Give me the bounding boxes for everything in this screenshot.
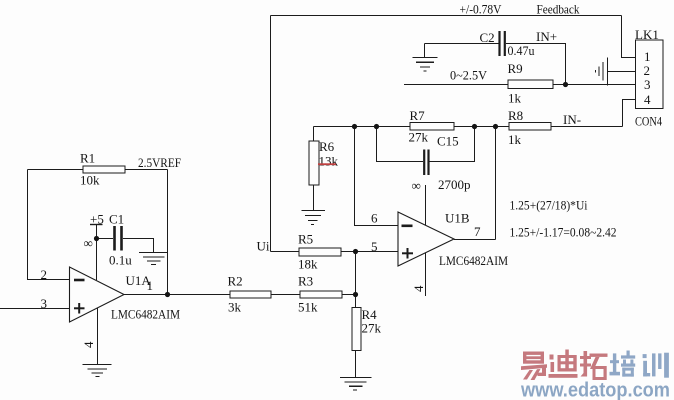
junction dot C15 left (374, 124, 379, 129)
wire feedback to LK1 pin1 (622, 16, 636, 58)
wire C1 row (97, 238, 114, 240)
junction dot output feedback (493, 124, 498, 129)
resistor R6 13k vertical (309, 141, 319, 185)
wire R4 bottom (355, 351, 357, 378)
connector LK1 CON4 body (636, 40, 664, 109)
wire Ui to R5 (271, 251, 300, 253)
wire U1A output to R2 (124, 294, 230, 296)
resistor R7 27k (410, 123, 454, 131)
wire C15 left (377, 127, 424, 162)
red watermark tick under 13k (318, 163, 336, 165)
wire U1B output (454, 239, 496, 241)
wire R1 left (28, 169, 84, 171)
wire C2 right IN+ (506, 44, 566, 85)
wire input pin3 (0, 308, 69, 310)
wire node R3R5 vertical to R4 (355, 252, 357, 308)
wire R1 right (125, 169, 168, 171)
wire output feedback vertical (495, 127, 497, 240)
wire R3 to node (342, 294, 356, 296)
wire U1B pin6 (355, 127, 399, 226)
op-amp U1A plus (74, 303, 85, 314)
wire C2 to ground (424, 44, 426, 58)
wire R6 top (313, 127, 315, 142)
junction dot C15 right (472, 124, 477, 129)
wire U1A pin8 supply (96, 225, 98, 281)
wire 2.5VREF vertical (167, 170, 169, 295)
resistor R8 1k (509, 123, 551, 131)
junction dot R7 line left (352, 124, 357, 129)
wire feedback loop to pin2 (28, 170, 70, 280)
ground under R4 (340, 378, 372, 391)
resistor R2 3k (230, 291, 271, 298)
resistor R3 51k (300, 291, 342, 298)
watermark char yi (521, 352, 547, 381)
junction dot IN+ (563, 82, 568, 87)
resistor R9 1k (508, 80, 553, 89)
ground under U1A pin4 (83, 365, 112, 377)
wire C2 left (425, 43, 499, 45)
watermark char pei (610, 351, 636, 377)
resistor R4 27k vertical (352, 308, 361, 351)
resistor R1 10k (83, 166, 125, 173)
wire R6 bottom (313, 185, 315, 210)
junction dot node R3 R4 (353, 292, 358, 297)
wire 0~2.5V to R9 (404, 84, 508, 86)
op-amp U1A minus (74, 279, 85, 282)
wire IN- to LK1 pin4 (623, 100, 636, 127)
wire feedback left vertical (270, 16, 272, 252)
wire C1 right to ground (123, 239, 154, 253)
op-amp U1B plus (402, 248, 413, 259)
op-amp U1B minus (402, 225, 413, 228)
power +5 rail bar (90, 224, 103, 226)
op-amp U1B triangle (398, 212, 454, 266)
resistor R5 18k (299, 248, 341, 256)
watermark char di (549, 350, 578, 378)
wire R8 to LK1 corner (551, 126, 623, 128)
capacitor C2 0.47u plates (500, 31, 505, 56)
ground under C2 (413, 58, 438, 72)
watermark char xun (643, 353, 669, 378)
wire U1A pin4 (97, 308, 99, 365)
ground rotated at LK1 pin2 (596, 58, 608, 86)
wire C15 right (430, 127, 475, 162)
ground under C1 (139, 253, 168, 265)
wire U1B pin8 stub (425, 185, 427, 225)
capacitor C15 2700p plates (424, 150, 428, 176)
wire R5 to U1B pin5 (341, 251, 398, 253)
svg-text:www.edatop.com: www.edatop.com (520, 380, 670, 400)
op-amp U1A triangle (70, 267, 125, 322)
junction dot U1A supply (94, 236, 99, 241)
watermark char tuo (580, 351, 608, 380)
wire ground to LK1 pin2 (608, 71, 636, 73)
wire U1B pin4 stub (425, 253, 427, 296)
wire R2 to R3 (271, 294, 300, 296)
wire R7 to R8 (454, 126, 509, 128)
capacitor C1 0.1u plates (115, 226, 122, 251)
junction dot node 5 (353, 249, 358, 254)
wire R9 to LK1 pin3 (553, 84, 636, 86)
junction dot U1A output node (165, 292, 170, 297)
wire feedback top (271, 15, 622, 17)
wire R7 row left (314, 126, 411, 128)
ground under R6 (302, 211, 326, 225)
